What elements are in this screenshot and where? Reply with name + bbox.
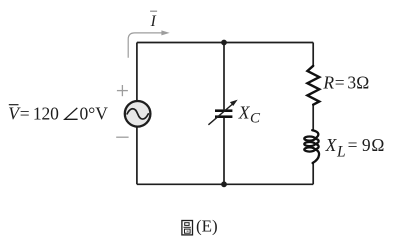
svg-text:X: X: [325, 135, 338, 155]
AC source sine wave: [127, 109, 148, 119]
capacitor XC bottom plate: [215, 115, 232, 118]
current arrow head: [161, 30, 169, 35]
label R=3ohm: [322, 73, 369, 93]
svg-text:L: L: [336, 144, 346, 161]
wire right lower (inductor to bottom): [312, 163, 314, 185]
label XC: [238, 102, 261, 126]
wire middle branch upper (to capacitor): [223, 43, 225, 110]
svg-text:9: 9: [362, 135, 371, 155]
wire right middle (resistor to inductor): [312, 105, 314, 131]
svg-text:=: =: [348, 135, 358, 155]
wire bottom: [137, 183, 313, 185]
svg-text:=: =: [20, 103, 30, 123]
capacitor XC top plate: [215, 109, 232, 112]
svg-text:Ω: Ω: [356, 73, 369, 93]
svg-text:120: 120: [33, 103, 59, 123]
svg-text:C: C: [250, 111, 261, 127]
junction node top: [221, 40, 227, 46]
resistor R zigzag: [307, 66, 319, 105]
current arrow curve: [128, 33, 162, 58]
svg-text:X: X: [238, 102, 251, 122]
svg-text:Ω: Ω: [371, 135, 384, 155]
wire left lower (source bottom lead): [136, 127, 138, 185]
source minus sign: [116, 136, 128, 138]
junction node bottom: [221, 181, 227, 187]
source label V=120 angle 0 V: [8, 103, 108, 123]
AC source V circle: [125, 101, 151, 127]
current label I with overbar: [150, 11, 158, 30]
inductor XL coil: [304, 130, 319, 163]
svg-text:(E): (E): [196, 217, 218, 236]
svg-text:0°V: 0°V: [80, 103, 109, 123]
wire middle branch lower (from capacitor): [223, 118, 225, 184]
caption glyph TU (figure) drawn: [182, 221, 193, 235]
wire top (node A to node B): [137, 42, 313, 44]
svg-text:3: 3: [347, 73, 356, 93]
source plus sign: [117, 85, 128, 96]
svg-text:R: R: [322, 73, 334, 93]
capacitor variable arrow: [208, 100, 237, 125]
label XL=9ohm: [325, 135, 385, 161]
wire left upper (source top lead): [136, 43, 138, 102]
svg-text:=: =: [335, 73, 345, 93]
angle symbol in source label: [65, 108, 78, 119]
svg-text:I: I: [150, 13, 157, 30]
wire right upper (to resistor): [312, 43, 314, 67]
